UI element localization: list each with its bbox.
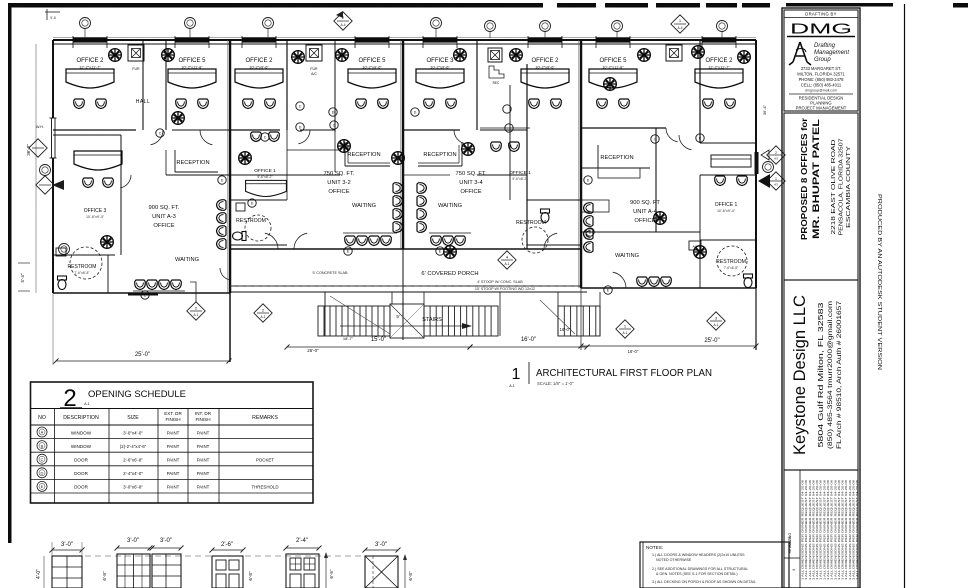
stairs right flight: [424, 306, 498, 336]
plant x=342 y=55: [336, 49, 349, 62]
door swing arc: [679, 135, 691, 150]
door tag E: [344, 247, 352, 255]
chairs in office x=90: [74, 99, 85, 109]
dimension 25-0 unit1: [56, 360, 229, 362]
window on top wall x=372: [355, 37, 389, 42]
waiting chairs unit4: [637, 277, 672, 287]
steps symbol unit3: [489, 66, 504, 78]
plant x=344 y=146: [338, 140, 351, 153]
dimension 16-0 stairs: [470, 346, 587, 348]
plant x=115 y=55: [109, 49, 122, 62]
window on top wall x=613: [596, 37, 630, 42]
window marker circle: [540, 21, 551, 32]
window in left wall: [50, 118, 57, 158]
door tag C: [651, 135, 659, 143]
FUR closet unit4: [666, 45, 682, 61]
party wall unit3/unit4: [580, 40, 583, 288]
schedule row D: [31, 478, 314, 480]
scan noise overlay: [0, 0, 1, 1]
unit1 front wall: [53, 292, 230, 294]
reception desk unit2: [344, 142, 346, 166]
stair side walls: [324, 292, 326, 336]
window elevation B left: [117, 554, 150, 588]
door elevation D height dim: [325, 554, 327, 588]
unit3 interior walls: [476, 40, 478, 130]
unit3 office4 desk: [491, 142, 502, 152]
desk in office x=259: [235, 69, 283, 88]
door tag C: [696, 134, 704, 142]
door tag D: [296, 123, 304, 131]
desk in office x=440: [416, 69, 464, 88]
left small marker circle: [59, 244, 70, 255]
schedule row B: [31, 451, 314, 453]
DMG compass logo: [789, 42, 811, 65]
window jamb ticks: [701, 36, 703, 48]
door tag E: [436, 247, 444, 255]
unit1 office3 desk: [74, 151, 122, 170]
AC box unit4: [689, 241, 701, 250]
door elevation E: [365, 556, 398, 588]
right side diamond 2: [767, 172, 785, 190]
door elevation D: [286, 554, 319, 588]
waiting chairs unit2: [345, 236, 392, 246]
door tag C: [296, 102, 304, 110]
window elevation B right: [152, 554, 181, 588]
door tag C: [156, 129, 164, 137]
window elevation A: [52, 556, 82, 588]
section diamond top 1: [334, 12, 352, 30]
window on top wall x=719: [702, 37, 736, 42]
section diamond 2/A-1: [187, 302, 205, 320]
plant x=168 y=55: [162, 49, 175, 62]
chairs in office x=259: [243, 99, 254, 109]
door swing arc: [298, 130, 310, 144]
door swing arc: [666, 128, 678, 142]
waiting chairs unit1: [135, 280, 182, 290]
plant x=516 y=55: [510, 49, 523, 62]
restroom unit1 fixtures: [58, 276, 67, 290]
door elevation C: [212, 556, 243, 588]
middle units front wall: [230, 248, 581, 250]
top-left corner ticks: [45, 11, 60, 13]
door swing arc: [613, 272, 626, 288]
unit4 front wall: [581, 287, 756, 289]
door tag E: [141, 291, 149, 299]
left marker circle 2: [40, 165, 51, 176]
door swing arc: [200, 130, 212, 145]
window jamb ticks: [422, 36, 424, 48]
window on top wall x=545: [528, 37, 562, 42]
window on top wall x=259: [242, 37, 276, 42]
door tag E: [604, 286, 612, 294]
right side marker circle: [763, 162, 774, 173]
project title box: [784, 113, 858, 280]
plant x=644 y=55: [638, 49, 651, 62]
desk in office x=545: [521, 69, 569, 88]
notes box frame: [640, 542, 789, 588]
section diamond 4/A-1: [498, 251, 516, 269]
door tag D: [329, 108, 337, 116]
chair column x=397: [393, 183, 403, 194]
section diamond 2/A-1: [254, 304, 272, 322]
chairs in office x=192: [176, 99, 187, 109]
window on top wall x=90: [73, 37, 107, 42]
window marker circle: [263, 18, 274, 29]
plant x=450 y=252: [444, 246, 457, 259]
restroom unit4 fixtures: [717, 246, 747, 276]
plant x=700 y=252: [694, 246, 707, 259]
chairs in office x=440: [424, 99, 435, 109]
plant x=698 y=52: [692, 46, 705, 59]
opening schedule table frame: [31, 382, 314, 503]
restroom unit3 fixtures: [522, 227, 548, 253]
window marker circle: [431, 18, 442, 29]
closet unit1: [128, 45, 144, 61]
left exterior wall: [52, 40, 54, 293]
desk in office x=613: [589, 69, 637, 88]
window marker circle: [80, 18, 91, 29]
door swing arc: [544, 233, 557, 249]
keystone design box: [784, 280, 858, 470]
plant x=178 y=118: [172, 112, 185, 125]
sheet border left bar: [8, 3, 12, 543]
window jamb ticks: [527, 36, 529, 48]
stairs landing box: [390, 304, 424, 338]
sheet border right line: [904, 4, 906, 588]
reception desk unit3: [461, 142, 463, 166]
door swing arc: [294, 233, 307, 249]
door tag D: [584, 176, 592, 184]
plant x=610 y=84: [604, 78, 617, 91]
FUR closet unit3 small: [488, 48, 502, 62]
plant x=660 y=218: [654, 212, 667, 225]
schedule row A: [31, 438, 314, 440]
desk in office x=719: [695, 69, 743, 88]
chairs in office x=545: [529, 99, 540, 109]
party wall unit1/unit2: [229, 40, 232, 293]
door swing arc: [151, 130, 163, 145]
covered porch edge line: [230, 285, 581, 287]
plant x=398 y=158: [392, 152, 405, 165]
plant x=107 y=242: [101, 236, 114, 249]
chair column x=589: [584, 203, 594, 214]
left diamond marker: [36, 176, 54, 194]
chairs in office x=613: [597, 99, 608, 109]
sheet border top bar: [8, 3, 770, 8]
window marker circle: [485, 21, 496, 32]
top exterior wall: [53, 39, 756, 41]
title block outer frame: [782, 8, 860, 588]
window jamb ticks: [354, 36, 356, 48]
door tag D: [411, 108, 419, 116]
unit4 interior walls: [699, 40, 701, 143]
dimension line middle: [287, 346, 470, 348]
unit1 interior walls: [142, 40, 144, 130]
window marker circle: [185, 18, 196, 29]
stair diagonal stringer: [330, 296, 390, 334]
door swing arc: [120, 175, 131, 188]
door arc in party wall near porch: [220, 268, 230, 280]
schedule row C: [31, 465, 314, 467]
window marker circle: [612, 21, 623, 32]
schedule row E: [31, 492, 314, 494]
chairs in office x=719: [703, 99, 714, 109]
window jamb ticks: [595, 36, 597, 48]
plant x=468 y=149: [462, 143, 475, 156]
door swing arc: [265, 233, 278, 249]
schedule header separator: [31, 408, 314, 410]
unit4 restroom walls: [699, 240, 701, 288]
dimension 25-0 unit4: [581, 345, 756, 347]
plant x=245 y=158: [239, 152, 252, 165]
unit2 office1 desk: [246, 180, 287, 196]
plant x=460 y=55: [454, 49, 467, 62]
door swing arc: [454, 130, 466, 144]
chairs in office x=372: [356, 99, 367, 109]
door tag D: [586, 228, 594, 236]
stairs left flight: [318, 306, 390, 336]
door tag C: [330, 121, 338, 129]
leader to diamond 2/A-1: [190, 282, 196, 302]
unit1 restroom wall: [52, 255, 54, 293]
reception desk unit1: [174, 150, 176, 172]
unit2 interior walls: [286, 40, 288, 130]
door tag D: [248, 199, 256, 207]
porch slab edge line: [230, 291, 587, 293]
plant x=298 y=57: [292, 51, 305, 64]
right exterior wall: [755, 40, 757, 288]
window jamb ticks: [174, 36, 176, 48]
window marker circle: [717, 21, 728, 32]
DMG drafting box: [784, 10, 858, 111]
plant x=744 y=57: [738, 51, 751, 64]
window on top wall x=192: [175, 37, 209, 42]
unit4 office1 desk: [711, 155, 751, 167]
party wall unit2/unit3: [402, 40, 405, 249]
threshold bar unit1 door: [128, 293, 158, 296]
reception desk unit4: [597, 145, 599, 168]
small stair right flight: [558, 306, 600, 336]
section diamond top 2: [671, 15, 689, 33]
revision box: [784, 470, 858, 588]
door tag circle wall510 b: [505, 124, 513, 132]
desk in office x=372: [348, 69, 396, 88]
waiting chairs unit3: [431, 236, 466, 246]
section diamond 3/A-1: [707, 312, 725, 330]
chair column x=421: [417, 183, 427, 194]
door tag D: [218, 176, 226, 184]
left diamond marker 2: [29, 139, 47, 157]
restroom unit2 fixtures: [245, 215, 271, 241]
window in right wall: [755, 152, 759, 174]
section diamond 1/A-1: [616, 320, 634, 338]
window jamb ticks: [241, 36, 243, 48]
stairs arrow: [340, 325, 466, 327]
right side diamond 1: [767, 146, 785, 164]
desk in office x=90: [66, 69, 114, 88]
elevation guide line: [85, 555, 365, 557]
FUR closet unit2: [306, 45, 322, 61]
desk in office x=192: [168, 69, 216, 88]
window on top wall x=440: [423, 37, 457, 42]
window jamb ticks: [72, 36, 74, 48]
door tag circle wall510 a: [503, 105, 511, 113]
door tag C: [261, 133, 269, 141]
door elevation E height dim: [404, 556, 406, 588]
unit2 office wall: [287, 149, 340, 151]
chair column x=222: [217, 200, 227, 211]
schedule column lines: [54, 409, 56, 504]
